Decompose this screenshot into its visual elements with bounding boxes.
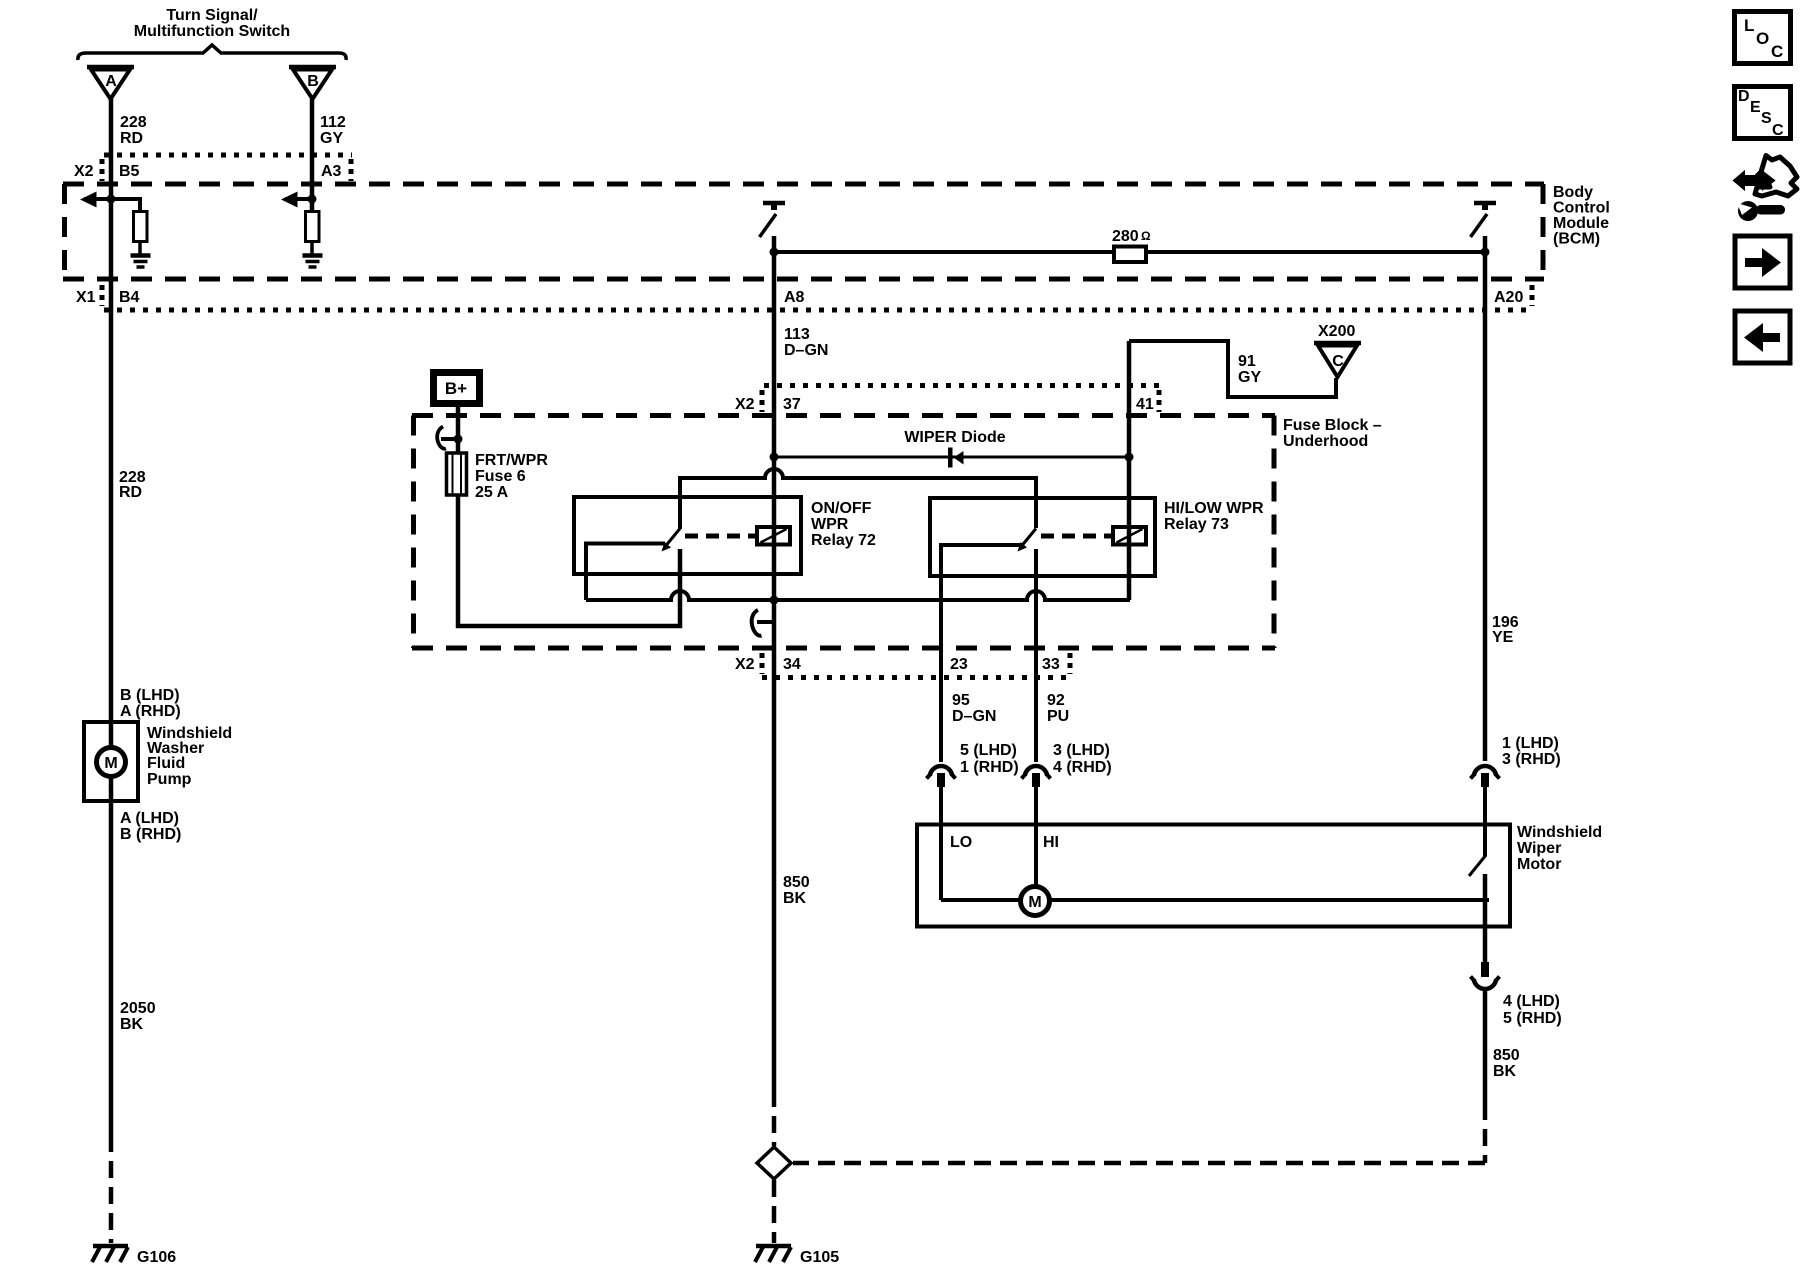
icon next (right arrow) button bbox=[1735, 236, 1790, 288]
in-line connector on wire 92 bbox=[1022, 766, 1051, 787]
wire 850 BK right dashed to splice bbox=[793, 1103, 1485, 1163]
relay 72 box (ON/OFF WPR Relay 72) bbox=[574, 497, 801, 574]
fuse FRT/WPR Fuse 6 25 A bbox=[447, 453, 467, 495]
relay 73 coil bbox=[1113, 527, 1146, 545]
svg-text:FRT/WPR: FRT/WPR bbox=[475, 452, 548, 469]
relay 72 switch lever bbox=[662, 529, 681, 552]
wire 2050 BK bbox=[109, 776, 114, 1135]
relay 73 box (HI/LOW WPR Relay 73) bbox=[930, 498, 1155, 576]
wire coil bus y=600 (hops over x=680 and x=1036) bbox=[586, 591, 1130, 600]
wire bbox=[310, 199, 314, 212]
svg-text:Ω: Ω bbox=[1141, 229, 1151, 243]
svg-text:A3: A3 bbox=[321, 163, 342, 180]
wire 91 GY jog to connector C bbox=[1129, 341, 1336, 397]
motor M circle (wiper motor) bbox=[1021, 887, 1050, 916]
svg-text:BK: BK bbox=[1493, 1063, 1517, 1080]
connector triangle A bbox=[87, 67, 134, 99]
ground (BCM internal, B side) bbox=[303, 256, 323, 268]
icon back (left arrow) button bbox=[1735, 311, 1790, 363]
svg-text:280: 280 bbox=[1112, 228, 1139, 245]
wire relay 72 switch top to relay 73 switch (wrap, hops over x=774) bbox=[680, 469, 1036, 529]
svg-text:Relay 73: Relay 73 bbox=[1164, 516, 1229, 533]
svg-text:1 (RHD): 1 (RHD) bbox=[960, 759, 1019, 776]
svg-text:228: 228 bbox=[120, 114, 147, 131]
svg-text:B+: B+ bbox=[445, 379, 467, 398]
windshield wiper motor box bbox=[917, 825, 1510, 927]
washer pump box bbox=[84, 722, 138, 801]
label 92 PU bbox=[1047, 692, 1069, 725]
in-line connector on wire 196 bbox=[1471, 766, 1500, 787]
svg-text:112: 112 bbox=[320, 114, 346, 131]
label 2050 BK bbox=[120, 1000, 156, 1033]
arrow into BCM from pin A3 bbox=[281, 192, 312, 208]
label 113 D-GN bbox=[784, 326, 828, 359]
svg-text:B4: B4 bbox=[119, 289, 140, 306]
wire relay 72 throw contact to coil bus bbox=[586, 544, 665, 601]
icon DESC button bbox=[1735, 87, 1791, 140]
svg-text:WPR: WPR bbox=[811, 516, 849, 533]
label 1 (LHD) 3 (RHD) bbox=[1502, 735, 1561, 768]
label 850 BK (right) bbox=[1493, 1047, 1520, 1080]
svg-text:PU: PU bbox=[1047, 708, 1069, 725]
svg-text:E: E bbox=[1750, 99, 1761, 116]
wire 113 D-GN (x=774 from A8 down to fuse block) bbox=[772, 236, 777, 1090]
connector X2 row (pins 37, 41) bbox=[735, 386, 1160, 414]
label 4 (LHD) 5 (RHD) bbox=[1503, 993, 1562, 1027]
Fuse Block - Underhood dashed outline bbox=[412, 416, 1275, 649]
svg-text:A: A bbox=[105, 73, 117, 90]
svg-text:M: M bbox=[104, 755, 117, 772]
wire 95 D-GN into motor LO bbox=[939, 786, 943, 900]
svg-text:BK: BK bbox=[120, 1016, 144, 1033]
wire bbox=[310, 241, 314, 255]
svg-text:GY: GY bbox=[320, 130, 343, 147]
power feed curl symbol bbox=[437, 427, 458, 449]
svg-text:B: B bbox=[307, 73, 319, 90]
label 196 YE bbox=[1492, 614, 1519, 646]
svg-text:Motor: Motor bbox=[1517, 856, 1561, 873]
wire bbox=[138, 241, 142, 255]
svg-text:A (RHD): A (RHD) bbox=[120, 703, 181, 720]
icon LOC button bbox=[1735, 12, 1791, 64]
node junction diode/wire 37 bbox=[770, 453, 779, 462]
wire from B+ bbox=[456, 407, 461, 453]
ground (BCM internal, A side) bbox=[131, 256, 151, 268]
label ON/OFF WPR Relay 72 bbox=[811, 500, 876, 549]
node junction at A8 driver bbox=[770, 248, 779, 257]
svg-text:4 (RHD): 4 (RHD) bbox=[1053, 759, 1112, 776]
svg-text:BK: BK bbox=[783, 890, 807, 907]
svg-text:Body: Body bbox=[1553, 184, 1593, 201]
power feed curl symbol on wire 34 bbox=[752, 610, 775, 636]
label Body Control Module (BCM) bbox=[1553, 184, 1610, 248]
svg-text:3 (RHD): 3 (RHD) bbox=[1502, 751, 1561, 768]
svg-text:A20: A20 bbox=[1494, 289, 1523, 306]
svg-text:B (LHD): B (LHD) bbox=[120, 687, 180, 704]
svg-text:X2: X2 bbox=[735, 396, 755, 413]
svg-text:2050: 2050 bbox=[120, 1000, 156, 1017]
connector X2 row (pins 34, 23, 33) bbox=[735, 653, 1071, 678]
resistor (BCM pull-down, B side) bbox=[306, 212, 320, 242]
wire dashed splice to G105 bbox=[772, 1180, 777, 1243]
svg-text:B (RHD): B (RHD) bbox=[120, 826, 181, 843]
svg-text:X2: X2 bbox=[74, 163, 94, 180]
WIPER diode line bbox=[774, 456, 1129, 459]
svg-text:Windshield: Windshield bbox=[1517, 824, 1602, 841]
arrow into BCM from pin B5 bbox=[80, 192, 111, 208]
svg-text:RD: RD bbox=[120, 130, 143, 147]
brace (multifunction switch) bbox=[78, 45, 346, 60]
node junction diode/wire 41 bbox=[1125, 453, 1134, 462]
ground G106 bbox=[92, 1246, 176, 1266]
label Windshield Wiper Motor bbox=[1517, 824, 1602, 873]
label HI/LOW WPR Relay 73 bbox=[1164, 500, 1264, 533]
svg-text:A (LHD): A (LHD) bbox=[120, 810, 179, 827]
wire relay 73 common to pin 33 bbox=[1034, 549, 1038, 762]
svg-text:C: C bbox=[1772, 122, 1784, 139]
wire 41 (from jog, through X2-41, coil 73, to coil bus) bbox=[1127, 341, 1132, 600]
svg-text:D–GN: D–GN bbox=[784, 342, 828, 359]
svg-text:850: 850 bbox=[1493, 1047, 1520, 1064]
svg-text:C: C bbox=[1332, 353, 1344, 370]
wire 196 YE into motor park switch bbox=[1483, 786, 1487, 856]
svg-text:HI/LOW WPR: HI/LOW WPR bbox=[1164, 500, 1264, 517]
svg-text:113: 113 bbox=[784, 326, 810, 343]
svg-text:850: 850 bbox=[783, 874, 810, 891]
label A (LHD) B (RHD) bbox=[120, 810, 181, 843]
svg-text:C: C bbox=[1771, 42, 1783, 61]
wire relay 73 throw contact to pin 23 bbox=[941, 545, 1021, 762]
svg-text:91: 91 bbox=[1238, 353, 1256, 370]
label 95 D-GN bbox=[952, 692, 996, 725]
svg-text:G106: G106 bbox=[137, 1249, 176, 1266]
resistor (BCM pull-down, A side) bbox=[134, 212, 148, 242]
svg-text:Fuse 6: Fuse 6 bbox=[475, 468, 526, 485]
label FRT/WPR Fuse 6 25 A bbox=[475, 452, 548, 501]
svg-text:RD: RD bbox=[119, 484, 142, 501]
label Windshield Washer Fluid Pump bbox=[147, 725, 232, 788]
motor M circle (washer pump) bbox=[97, 748, 126, 777]
svg-text:1 (LHD): 1 (LHD) bbox=[1502, 735, 1559, 752]
svg-text:X2: X2 bbox=[735, 656, 755, 673]
svg-text:33: 33 bbox=[1042, 656, 1060, 673]
park switch lever in motor bbox=[1469, 855, 1486, 876]
node junction at A20 driver bbox=[1481, 248, 1490, 257]
svg-text:G105: G105 bbox=[800, 1249, 839, 1266]
svg-text:S: S bbox=[1761, 110, 1772, 127]
svg-text:X200: X200 bbox=[1318, 323, 1355, 340]
splice diamond bbox=[757, 1147, 791, 1179]
node junction coil bus / wire 34 bbox=[770, 596, 779, 605]
svg-text:Turn Signal/: Turn Signal/ bbox=[166, 7, 258, 24]
label 228 RD (second, above washer pump) bbox=[119, 469, 146, 501]
wire motor armature line bbox=[941, 898, 1489, 902]
svg-text:Pump: Pump bbox=[147, 771, 192, 788]
wire 92 PU into motor HI bbox=[1034, 786, 1038, 886]
svg-text:3 (LHD): 3 (LHD) bbox=[1053, 742, 1110, 759]
driver switch (BCM output A8) bbox=[760, 203, 786, 237]
svg-text:Underhood: Underhood bbox=[1283, 433, 1368, 450]
svg-text:LO: LO bbox=[950, 834, 972, 851]
svg-text:Fuse Block –: Fuse Block – bbox=[1283, 417, 1382, 434]
label 91 GY bbox=[1238, 353, 1261, 386]
battery feed B+ bbox=[434, 373, 480, 404]
svg-text:5 (LHD): 5 (LHD) bbox=[960, 742, 1017, 759]
dashed link relay 72 lever to coil bbox=[685, 534, 757, 539]
svg-text:A8: A8 bbox=[784, 289, 805, 306]
svg-text:Control: Control bbox=[1553, 200, 1610, 217]
svg-text:95: 95 bbox=[952, 692, 970, 709]
relay 73 switch lever bbox=[1018, 529, 1037, 552]
wire dashed to G106 bbox=[109, 1135, 114, 1243]
icon diagnostic (arrows + wrench) bbox=[1734, 156, 1797, 222]
driver switch (BCM output A20) bbox=[1471, 203, 1497, 237]
svg-text:23: 23 bbox=[950, 656, 968, 673]
in-line connector on wire 850 (right, inverted) bbox=[1471, 962, 1500, 989]
connector X2 row (pins B5, A3) bbox=[74, 155, 352, 181]
svg-text:B5: B5 bbox=[119, 163, 140, 180]
svg-text:5 (RHD): 5 (RHD) bbox=[1503, 1010, 1562, 1027]
svg-text:O: O bbox=[1756, 29, 1769, 48]
wire 228 RD (circuit A down from triangle A) bbox=[109, 99, 114, 748]
svg-text:HI: HI bbox=[1043, 834, 1059, 851]
svg-text:L: L bbox=[1744, 16, 1754, 35]
ground G105 bbox=[755, 1246, 839, 1266]
wire 112 GY (circuit B down from triangle B) bbox=[310, 99, 315, 212]
svg-text:(BCM): (BCM) bbox=[1553, 231, 1600, 248]
wire 850 BK left dashed to splice bbox=[772, 1090, 777, 1146]
label Turn Signal/Multifunction Switch bbox=[134, 7, 290, 40]
svg-text:41: 41 bbox=[1136, 396, 1154, 413]
svg-text:37: 37 bbox=[783, 396, 801, 413]
label 228 RD bbox=[120, 114, 147, 147]
svg-text:34: 34 bbox=[783, 656, 801, 673]
node junction at B+ tap bbox=[454, 435, 463, 444]
svg-text:D: D bbox=[1738, 88, 1750, 105]
connector triangle C (X200) bbox=[1314, 343, 1361, 377]
label Fuse Block - Underhood bbox=[1283, 417, 1382, 450]
Body Control Module (BCM) dashed outline bbox=[63, 184, 1544, 279]
svg-text:Multifunction Switch: Multifunction Switch bbox=[134, 23, 290, 40]
svg-text:Wiper: Wiper bbox=[1517, 840, 1561, 857]
svg-text:Fluid: Fluid bbox=[147, 755, 185, 772]
wire 850 BK right side solid bbox=[1483, 987, 1488, 1103]
svg-text:X1: X1 bbox=[76, 289, 96, 306]
label 3 (LHD) 4 (RHD) bbox=[1053, 742, 1112, 776]
svg-text:25 A: 25 A bbox=[475, 484, 509, 501]
label 5 (LHD) 1 (RHD) bbox=[960, 742, 1019, 776]
wire park switch common down through box bbox=[1483, 874, 1488, 963]
svg-text:ON/OFF: ON/OFF bbox=[811, 500, 872, 517]
label 850 BK (left) bbox=[783, 874, 810, 907]
wire BCM internal bus A8-A20 bbox=[774, 250, 1485, 254]
WIPER Diode symbol bbox=[948, 448, 964, 468]
svg-text:Module: Module bbox=[1553, 215, 1609, 232]
dashed link relay 73 lever to coil bbox=[1041, 534, 1113, 539]
svg-text:Relay 72: Relay 72 bbox=[811, 532, 876, 549]
label B (LHD) A (RHD) bbox=[120, 687, 181, 720]
svg-text:GY: GY bbox=[1238, 369, 1261, 386]
in-line connector on wire 95 bbox=[927, 766, 956, 787]
svg-text:WIPER Diode: WIPER Diode bbox=[904, 429, 1005, 446]
svg-text:4 (LHD): 4 (LHD) bbox=[1503, 993, 1560, 1010]
svg-text:YE: YE bbox=[1492, 629, 1514, 646]
wire fuse output to relay 72 switch bbox=[458, 495, 680, 626]
relay 72 coil bbox=[757, 527, 790, 545]
wire 196 YE (x=1485 from A20 down) bbox=[1483, 236, 1488, 761]
svg-text:M: M bbox=[1028, 894, 1041, 911]
label 112 GY bbox=[320, 114, 346, 147]
wire to resistor (A branch) bbox=[111, 199, 140, 212]
svg-text:D–GN: D–GN bbox=[952, 708, 996, 725]
svg-text:92: 92 bbox=[1047, 692, 1065, 709]
connector triangle B bbox=[289, 67, 336, 99]
node junction on wire B bbox=[308, 195, 317, 204]
connector X1 row (pins B4, A8, A20) bbox=[76, 285, 1533, 310]
node junction on wire A bbox=[107, 195, 116, 204]
resistor 280 ohm bbox=[1112, 228, 1151, 262]
